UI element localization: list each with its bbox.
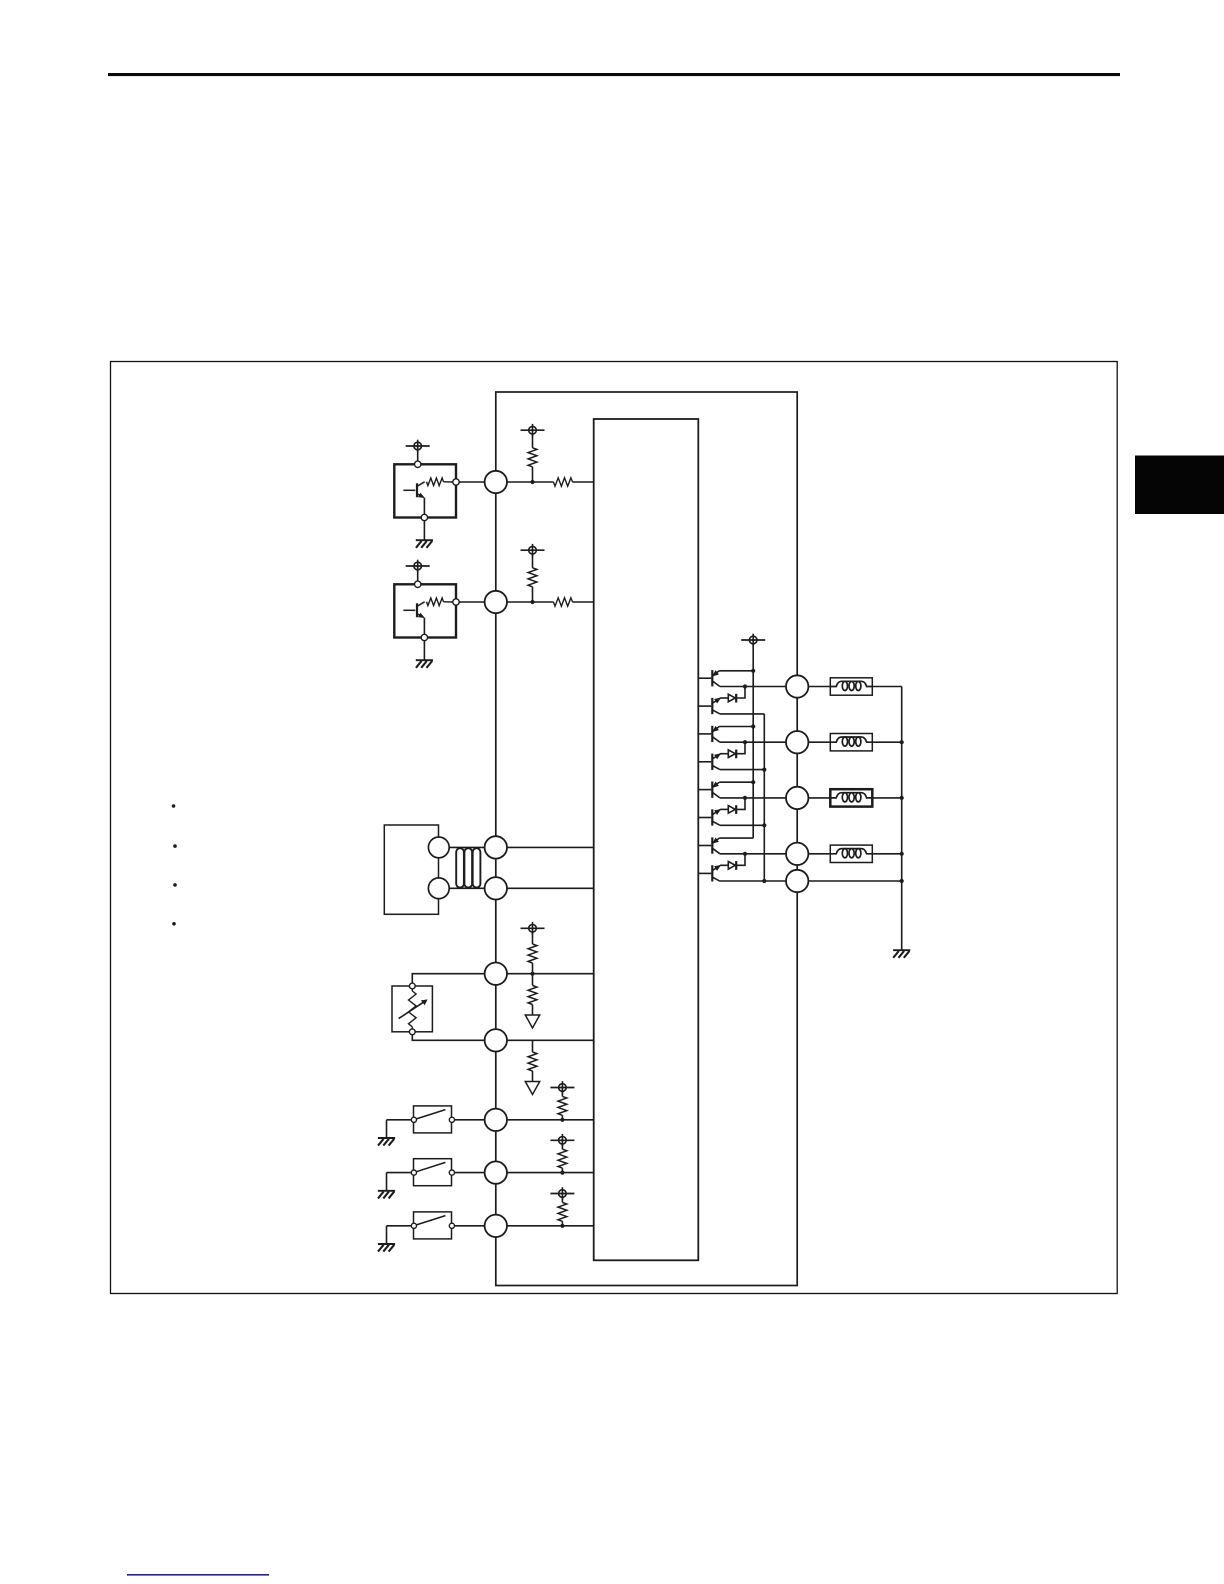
pull-up resistor for switch S1 [561,1091,563,1096]
wire switch S1 to connector pin [455,1119,485,1121]
terminal circles of sensor Q2 [415,581,460,641]
junction dot output 3 [743,796,747,800]
resonator terminal circles [428,837,449,899]
terminal circles of sensor Q1 [415,461,460,521]
junction dot switch S3 [560,1224,564,1228]
wire series resistor to IC sensor Q1 [573,481,594,483]
footer link rule [127,1574,269,1576]
wire thermistor bottom lead [412,1035,484,1040]
wire pin to coil L1 [808,686,830,688]
pull-up resistor for switch S3 [561,1197,563,1202]
switch switch S1 case [414,1106,452,1133]
wire pin to coil L3 [808,797,830,799]
connector pin CN-R4 [786,843,808,865]
junction dot output 1 [743,684,747,688]
ground of sensor Q2 [416,660,433,668]
connector pin CN-L1 [485,471,507,493]
wire switch S3 to ground side [387,1225,412,1227]
wire Q4A emitter to output pin [720,853,786,855]
common bus junction dots [900,740,904,883]
driver Q2B base wire from IC [698,761,711,763]
wire Q1A emitter to output pin [720,686,786,688]
driver Q2A (upper transistor) [712,726,720,742]
thermistor element [399,989,427,1028]
reference arrow (upper) [525,1015,539,1028]
switch switch S3 lever [416,1216,445,1225]
wire sensor Q2 +B to case [417,570,419,585]
driver Q2A base wire from IC [698,733,711,735]
driver Q4B (lower transistor) [712,865,720,881]
note bullet 3 [173,883,177,887]
connector pin CN-R5 [786,870,808,892]
series resistor sensor Q1 to IC [553,478,572,486]
wire connector-bus loop [496,392,797,1286]
wire Q4A collector to +B bus [719,837,753,839]
wire sensor Q1 +B to case [417,450,419,465]
ground of sensor Q1 [416,540,433,548]
wire Q2A collector to +B bus [719,726,753,728]
sensor sensor Q2 case (thick box) [394,584,456,637]
wire sensor Q1 output to connector pin [459,481,484,483]
wire Q4B collector to pin 5 line [720,880,786,882]
wire to flyback diode D3 [736,798,745,810]
wire switch S3 pin to IC [507,1225,594,1227]
switch switch S2 lever [416,1162,445,1171]
switch switch S2 contact circles [411,1170,454,1175]
power +B for sensor Q1 [406,440,430,453]
return bus junction dots [762,768,766,884]
motor coil L2 case [830,734,872,751]
power +B pull-up for switch S1 [550,1081,574,1094]
motor coil L2 winding [830,737,872,746]
series resistor sensor Q2 to IC [553,598,572,606]
wire thermistor pin to IC (upper) [507,973,594,975]
pull-up resistor for sensor Q1 [532,434,534,448]
motor common bus [901,687,903,951]
wire Q3B collector to return bus [720,824,764,826]
wire pin to coil L4 [808,853,830,855]
wire Q3A collector to +B bus [719,781,753,783]
driver Q1A base wire from IC [698,677,711,679]
power +B for sensor Q2 [406,560,430,573]
driver Q2B (lower transistor) [712,754,720,770]
wire sensor Q2 output to connector pin [459,601,484,603]
wire thermistor top lead [412,974,484,983]
thermistor TH1 case [392,986,432,1032]
power +B pull-up for thermistor [521,922,545,935]
wire resonator pin to IC (upper) [507,846,594,848]
motor coil L1 case [830,678,872,695]
driver Q3B (lower transistor) [712,809,720,825]
flyback diode D3 [720,805,736,814]
note bullet 4 [172,922,176,926]
driver Q1B (lower transistor) [712,698,720,714]
driver Q1A (upper transistor) [712,670,720,686]
pull-up resistor thermistor [532,932,534,944]
wire sensor Q2 resistor to output terminal [444,601,453,603]
+B bus of driver array [752,644,754,839]
transistor inside sensor Q1 [403,482,424,498]
wire switch S1 pin to IC [507,1119,594,1121]
connector pin CN-L8 [485,1161,507,1183]
wire pin 5 to common bus [808,880,901,882]
wire coil L3 to common [872,797,901,799]
figure frame [111,362,1118,1294]
return bus of driver array [763,714,765,881]
switch switch S1 contact circles [411,1117,454,1122]
wire Q1B collector to return bus [720,713,764,715]
transistor inside sensor Q2 [403,602,424,618]
resistor inside sensor Q1 [427,478,444,486]
ground of switch S2 [378,1191,395,1199]
connector pin CN-L2 [485,591,507,613]
wire to flyback diode D4 [736,854,745,866]
wire sensor Q1 resistor to output terminal [444,481,453,483]
driver Q4A base wire from IC [698,845,711,847]
flyback diode D1 [720,694,736,703]
connector pin CN-R1 [786,675,808,697]
thermistor terminal circles [409,983,415,1035]
connector pin CN-L6 [485,1029,507,1051]
connector pin CN-L5 [485,963,507,985]
wire thermistor pin to IC (lower) [507,1039,594,1041]
wire to flyback diode D1 [736,687,745,699]
wire series resistor to IC sensor Q2 [573,601,594,603]
reference arrow (lower) [525,1082,539,1095]
driver Q4B base wire from IC [698,872,711,874]
wire resonator bottom lead [449,887,484,889]
driver Q4A (upper transistor) [712,837,720,853]
driver Q3A (upper transistor) [712,782,720,798]
wire Q1A collector to +B bus [719,670,753,672]
page tab (solid black) [1135,456,1224,515]
power +B for output drivers [741,634,765,647]
connector pin CN-R3 [786,787,808,809]
wire Q2A emitter to output pin [720,741,786,743]
wire switch S2 pin to IC [507,1172,594,1174]
+B bus junction dots [751,669,755,785]
top rule [108,73,1120,76]
note bullet 2 [173,844,177,848]
switch switch S3 contact circles [411,1223,454,1228]
motor coil L4 case [830,845,872,862]
IC U1 (motor driver) body [594,419,699,1260]
connector pin CN-L3 [485,836,507,858]
resonator X1 case [384,825,438,914]
junction dot switch S2 [560,1171,564,1175]
divider resistor to reference (upper) [532,974,534,986]
power +B pull-up for sensor Q1 [521,424,545,437]
wire pin to series resistor sensor Q2 [507,601,553,603]
wire pin to series resistor sensor Q1 [507,481,553,483]
note bullet 1 [172,804,176,808]
switch switch S2 case [414,1159,452,1186]
ground of switch S3 [378,1244,395,1252]
motor coil L3 case [830,789,872,806]
motor coil L1 winding [830,681,872,690]
pull-up resistor for sensor Q2 [532,554,534,568]
wire switch S2 to ground side [387,1172,412,1174]
junction dot switch S1 [560,1118,564,1122]
flyback diode D4 [720,861,736,870]
power +B pull-up for sensor Q2 [521,544,545,557]
wire switch S1 to ground side [387,1119,412,1121]
flyback diode D2 [720,750,736,759]
wire pin to coil L2 [808,741,830,743]
ground of switch S1 [378,1138,395,1146]
wire to flyback diode D2 [736,742,745,754]
wire coil L4 to common [872,853,901,855]
power +B pull-up for switch S2 [550,1134,574,1147]
junction dot sensor Q1 [530,480,534,484]
divider resistor to reference (lower) [532,1040,534,1052]
sensor sensor Q1 case (thick box) [394,464,456,517]
wire sensor Q2 emitter to ground [423,618,425,635]
junction dot sensor Q2 [530,600,534,604]
driver Q3B base wire from IC [698,817,711,819]
power +B pull-up for switch S3 [550,1187,574,1200]
wire Q2B collector to return bus [720,769,764,771]
connector pin CN-L7 [485,1109,507,1131]
connector pin CN-R2 [786,731,808,753]
wire sensor Q1 emitter to ground [423,498,425,515]
junction dot thermistor upper [530,972,534,976]
switch switch S3 case [414,1212,452,1239]
ground of motor common [893,950,910,958]
resistor inside sensor Q2 [427,598,444,606]
motor coil L3 winding [830,793,872,802]
pull-up resistor for switch S2 [561,1144,563,1149]
wire coil L2 to common [872,741,901,743]
wire coil L1 to common [872,686,901,688]
junction dot output 4 [743,852,747,856]
wire switch S2 to connector pin [455,1172,485,1174]
connector pin CN-L9 [485,1215,507,1237]
connector pin CN-L4 [485,877,507,899]
wire resonator top lead [449,846,484,848]
coil winding of resonator X1 [456,848,480,887]
wire Q3A emitter to output pin [720,797,786,799]
driver Q3A base wire from IC [698,789,711,791]
driver Q1B base wire from IC [698,705,711,707]
wire switch S3 to connector pin [455,1225,485,1227]
wire resonator pin to IC (lower) [507,887,594,889]
junction dot output 2 [743,740,747,744]
motor coil L4 winding [830,849,872,858]
switch switch S1 lever [416,1110,445,1119]
